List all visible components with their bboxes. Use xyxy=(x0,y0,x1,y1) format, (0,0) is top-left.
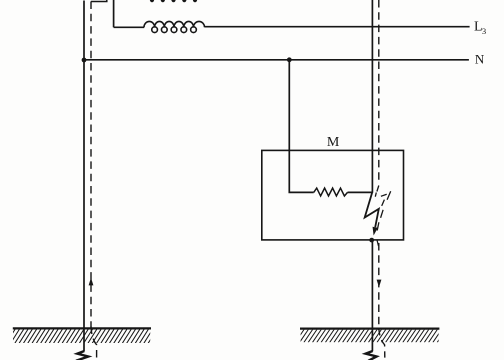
motor frame box xyxy=(262,150,404,240)
fault-current dashed path right: vertical upper xyxy=(378,0,380,184)
ground surface line right xyxy=(300,328,439,330)
svg-text:M: M xyxy=(327,135,340,150)
wire: N line xyxy=(84,59,469,61)
partial coil of upper phase line at top edge xyxy=(150,0,197,2)
L3 feeder vertical from source xyxy=(113,0,115,27)
fault-current dashed path right: curve through ground xyxy=(379,328,385,358)
arrowhead down on right fault path xyxy=(377,280,382,288)
wire: resistor to fault point xyxy=(348,191,373,193)
fault-current dashed path left: top jog to source xyxy=(91,0,107,2)
earth electrode zigzag right xyxy=(366,351,377,360)
svg-text:L3: L3 xyxy=(474,20,486,36)
junction dot: fault to frame / earthing xyxy=(369,238,374,243)
junction dot: N to left earthing conductor xyxy=(82,58,87,63)
fault-current dashed path right: vertical lower xyxy=(378,243,380,330)
inductor winding L3 (source impedance coil) xyxy=(144,21,205,32)
arrowhead up on left fault path xyxy=(89,278,94,286)
svg-text:N: N xyxy=(475,52,485,67)
wire: motor branch from N down into frame xyxy=(289,60,313,193)
earth electrode zigzag left xyxy=(76,351,88,360)
fault lightning bolt with arrowhead xyxy=(365,192,379,235)
wire: L3 tap vertical down to motor xyxy=(371,0,373,193)
fault-current dashed path right: zigzag around bolt xyxy=(375,186,390,247)
wire: L3 line to right xyxy=(205,26,470,28)
resistor (motor winding) xyxy=(314,188,348,196)
junction dot: N to motor branch xyxy=(287,57,292,62)
wire: left earthing conductor (vertical) xyxy=(83,1,85,352)
ground hatching left xyxy=(2,329,157,343)
wire from L3 feeder to coil xyxy=(114,26,145,28)
ground surface line left xyxy=(13,327,151,329)
fault-current dashed path left: vertical xyxy=(90,2,92,329)
wire: frame earthing conductor down xyxy=(371,240,373,351)
ground hatching right xyxy=(291,329,446,342)
fault-current dashed path left: curve through ground xyxy=(91,327,97,358)
